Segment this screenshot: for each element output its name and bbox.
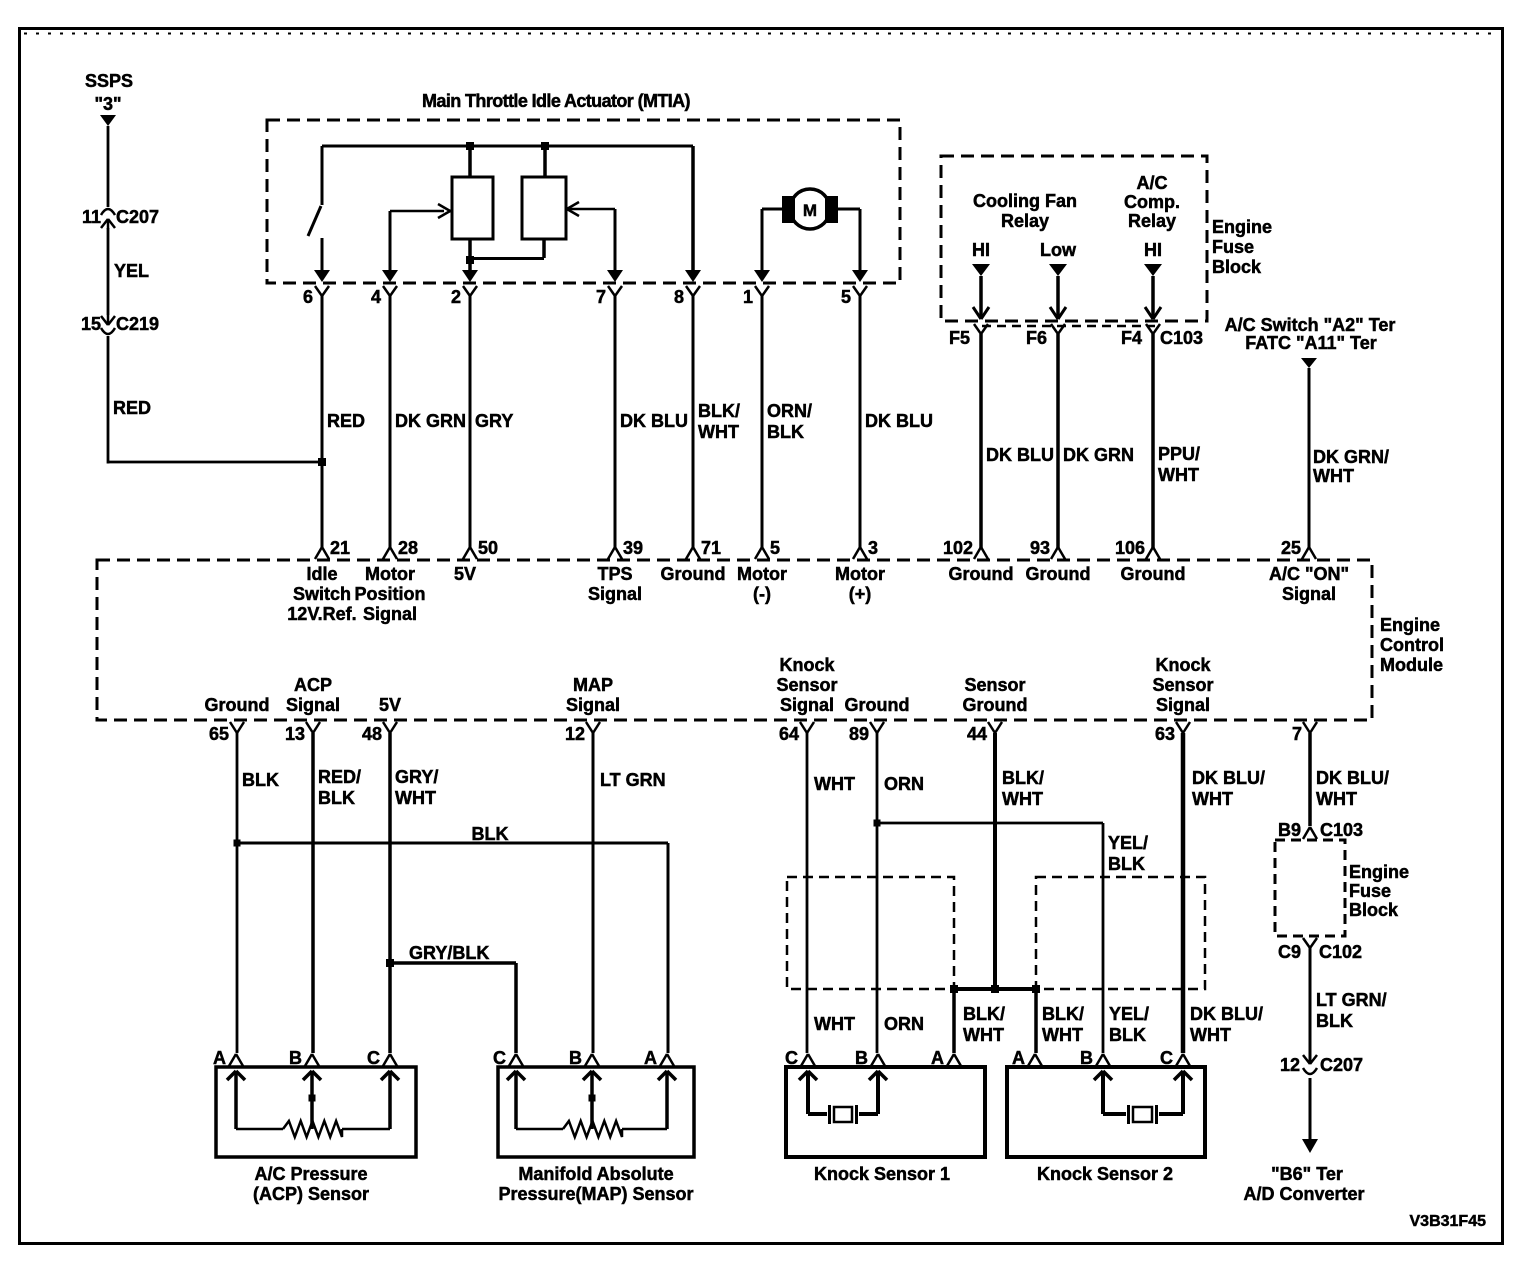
MTIA pin 4 connector	[371, 270, 398, 307]
wire MTIA pin 5 to ECM	[859, 295, 862, 548]
ECM top pin 21 connector	[315, 538, 350, 559]
svg-text:A: A	[644, 1048, 657, 1068]
ECM bottom pin 89 connector	[849, 722, 884, 744]
svg-text:BLK: BLK	[318, 788, 355, 808]
ECM bottom pin 7 connector	[1292, 722, 1317, 744]
svg-text:ORN/: ORN/	[767, 401, 812, 421]
idle switch	[308, 146, 322, 270]
KS1 internal arrow C	[799, 1071, 817, 1114]
MTIA pin 5 connector	[841, 270, 868, 307]
engine fuse block 2 enclosure	[1275, 840, 1345, 936]
wire YEL label	[114, 261, 149, 281]
svg-text:DK GRN: DK GRN	[1063, 445, 1134, 465]
fuse F5 wire	[979, 276, 983, 318]
svg-text:Knock Sensor 1: Knock Sensor 1	[814, 1164, 950, 1184]
junction dot pot2 top	[541, 142, 549, 150]
ECM pin 48 function label	[379, 695, 401, 715]
ECM top pin 28 connector	[383, 538, 418, 559]
shield dashed box KS1	[787, 877, 954, 989]
svg-text:Motor: Motor	[835, 564, 885, 584]
KS1 internal arrow B	[869, 1071, 887, 1114]
svg-text:5: 5	[770, 538, 780, 558]
svg-text:65: 65	[209, 724, 229, 744]
svg-text:Ground: Ground	[845, 695, 910, 715]
ECM top pin 39 connector	[608, 538, 643, 559]
svg-text:GRY/: GRY/	[395, 767, 438, 787]
svg-text:Comp.: Comp.	[1124, 192, 1180, 212]
svg-text:(ACP) Sensor: (ACP) Sensor	[253, 1184, 369, 1204]
KS1 pin A connector	[931, 1048, 961, 1068]
svg-text:YEL/: YEL/	[1108, 833, 1148, 853]
svg-text:WHT: WHT	[1316, 789, 1357, 809]
svg-text:BLK: BLK	[1109, 1025, 1146, 1045]
ECM bottom pin 63 connector	[1155, 722, 1190, 744]
svg-text:21: 21	[330, 538, 350, 558]
potentiometer element 1	[452, 177, 493, 239]
svg-text:Idle: Idle	[306, 564, 337, 584]
svg-text:PPU/: PPU/	[1158, 444, 1200, 464]
KS1 pin C connector	[785, 1048, 815, 1068]
fuse F5 connector	[949, 307, 989, 348]
connector C207 pin 11	[82, 207, 159, 229]
wire 7 DK BLU/WHT down	[1308, 733, 1312, 826]
wire 89 ORN to KS1 B	[876, 733, 879, 1053]
engine fuse block label	[1212, 217, 1272, 277]
relay HI terminal	[972, 240, 990, 276]
pot2 top stem	[543, 146, 547, 177]
wire C207 to AD converter	[1309, 1078, 1312, 1140]
svg-text:DK BLU: DK BLU	[865, 411, 933, 431]
svg-text:Ground: Ground	[963, 695, 1028, 715]
svg-text:BLK: BLK	[472, 824, 509, 844]
svg-text:C: C	[367, 1048, 380, 1068]
svg-text:YEL: YEL	[114, 261, 149, 281]
svg-text:DK BLU: DK BLU	[620, 411, 688, 431]
svg-text:F6: F6	[1026, 328, 1047, 348]
wire MTIA top bus	[322, 145, 693, 148]
svg-text:71: 71	[701, 538, 721, 558]
wire C219 down and right to junction	[108, 336, 322, 464]
svg-text:WHT: WHT	[1002, 789, 1043, 809]
KS1 box	[786, 1067, 985, 1157]
svg-text:M: M	[803, 201, 817, 220]
svg-text:ACP: ACP	[294, 675, 332, 695]
cooling fan relay label	[973, 191, 1077, 231]
wire fuse to ECM pin 106	[1151, 334, 1155, 548]
svg-text:102: 102	[943, 538, 973, 558]
svg-text:FATC "A11" Ter: FATC "A11" Ter	[1245, 333, 1376, 353]
svg-text:WHT: WHT	[395, 788, 436, 808]
svg-text:B: B	[1080, 1048, 1093, 1068]
svg-text:3: 3	[868, 538, 878, 558]
svg-text:12: 12	[1280, 1055, 1300, 1075]
svg-text:5V: 5V	[454, 564, 476, 584]
svg-text:RED: RED	[113, 398, 151, 418]
svg-text:SSPS: SSPS	[85, 71, 133, 91]
svg-text:BLK/: BLK/	[1042, 1004, 1084, 1024]
wire C102 to C207	[1309, 948, 1312, 1053]
wire color label GRY	[475, 411, 513, 431]
pot1 wiper arrow from pin 4	[390, 204, 451, 270]
engine fuse block enclosure	[941, 156, 1207, 321]
KS1 label	[814, 1164, 950, 1184]
svg-text:4: 4	[371, 287, 381, 307]
ECM pin 28 function label	[355, 564, 426, 624]
svg-text:"3": "3"	[94, 94, 121, 114]
svg-text:Module: Module	[1380, 655, 1443, 675]
ECM pin 71 function label	[661, 564, 726, 584]
MTIA pin 8 connector	[674, 270, 701, 307]
wire color label ORN	[884, 774, 924, 794]
svg-text:YEL/: YEL/	[1109, 1004, 1149, 1024]
svg-text:BLK: BLK	[242, 770, 279, 790]
KS2 internal arrow B	[1094, 1071, 1112, 1114]
ECM pin 44 function label	[963, 675, 1028, 715]
svg-text:BLK/: BLK/	[1002, 768, 1044, 788]
ACP internal arrow A	[227, 1071, 245, 1129]
wire MTIA pin 4 to ECM	[389, 295, 392, 548]
svg-text:MAP: MAP	[573, 675, 613, 695]
svg-text:Cooling Fan: Cooling Fan	[973, 191, 1077, 211]
pot1 bottom stem	[468, 239, 472, 270]
svg-text:C207: C207	[116, 207, 159, 227]
wire color label DK BLU	[865, 411, 933, 431]
KS1 piezo element	[808, 1105, 878, 1124]
svg-text:GRY/BLK: GRY/BLK	[409, 943, 489, 963]
junction YEL/BLK branch	[874, 820, 881, 827]
connector C102 pin C9	[1278, 938, 1362, 962]
AD converter arrow	[1302, 1139, 1318, 1153]
MTIA title	[422, 91, 691, 111]
svg-text:Switch: Switch	[293, 584, 351, 604]
svg-text:106: 106	[1115, 538, 1145, 558]
svg-text:Main Throttle Idle Actuator (M: Main Throttle Idle Actuator (MTIA)	[422, 91, 691, 111]
wire color label GRY/WHT	[395, 767, 438, 808]
svg-text:Motor: Motor	[737, 564, 787, 584]
svg-text:89: 89	[849, 724, 869, 744]
svg-text:Position: Position	[355, 584, 426, 604]
ECM bottom pin 13 connector	[285, 722, 320, 744]
shield dashed box KS2	[1036, 877, 1205, 989]
ECM bottom pin 48 connector	[362, 722, 397, 744]
svg-text:B: B	[569, 1048, 582, 1068]
connector C103 dashed line	[982, 326, 1203, 348]
svg-text:Signal: Signal	[566, 695, 620, 715]
svg-text:Manifold Absolute: Manifold Absolute	[518, 1164, 673, 1184]
svg-text:B: B	[289, 1048, 302, 1068]
junction shield left	[950, 985, 958, 993]
wire 12 LT GRN to MAP B	[592, 733, 595, 1053]
MTIA pin 2 connector	[451, 270, 478, 307]
ECM top pin 5 connector	[755, 538, 780, 559]
MAP pin A connector	[644, 1048, 674, 1068]
wire BLK bus to MAP A	[237, 843, 668, 1053]
MAP internal arrow C	[507, 1071, 525, 1129]
svg-text:Sensor: Sensor	[964, 675, 1025, 695]
svg-text:WHT: WHT	[814, 1014, 855, 1034]
MAP internal wiper dot	[589, 1095, 596, 1102]
ECM bottom pin 12 connector	[565, 722, 600, 744]
svg-text:A/C Switch "A2" Ter: A/C Switch "A2" Ter	[1225, 315, 1396, 335]
svg-text:Ground: Ground	[1026, 564, 1091, 584]
svg-text:Ground: Ground	[661, 564, 726, 584]
svg-text:Control: Control	[1380, 635, 1444, 655]
MAP sensor label	[498, 1164, 693, 1204]
fuse F6 connector	[1026, 307, 1066, 348]
junction dot pot1 top	[466, 142, 474, 150]
MTIA pin 1 connector	[743, 270, 770, 307]
ECM top pin 71 connector	[686, 538, 721, 559]
svg-text:DK BLU/: DK BLU/	[1192, 768, 1265, 788]
svg-text:Engine: Engine	[1380, 615, 1440, 635]
wire color label DK BLU/WHT pin7	[1316, 768, 1389, 809]
wire color label BLK	[242, 770, 279, 790]
svg-text:B: B	[855, 1048, 868, 1068]
svg-text:BLK: BLK	[1108, 854, 1145, 874]
svg-text:12V.Ref.: 12V.Ref.	[287, 604, 356, 624]
svg-text:ORN: ORN	[884, 1014, 924, 1034]
svg-text:TPS: TPS	[597, 564, 632, 584]
wire shield drop to KS2 A	[1034, 989, 1038, 1053]
fuse F6 wire	[1056, 276, 1060, 318]
wire color label ORN/BLK	[767, 401, 812, 442]
svg-text:DK BLU: DK BLU	[986, 445, 1054, 465]
junction shield mid	[991, 985, 999, 993]
svg-text:(-): (-)	[753, 584, 771, 604]
ECM pin 50 function label	[454, 564, 476, 584]
ECM pin 25 function label	[1269, 564, 1349, 604]
ECM label	[1380, 615, 1444, 675]
ECM pin 21 function label	[287, 564, 356, 624]
svg-text:Relay: Relay	[1001, 211, 1049, 231]
AC comp relay label	[1124, 173, 1180, 231]
ACP internal arrow B	[303, 1071, 321, 1129]
relay HI terminal 2	[1144, 240, 1162, 276]
ECM bottom pin 64 connector	[779, 722, 814, 744]
svg-text:A: A	[213, 1048, 226, 1068]
wire color label DK GRN	[1063, 445, 1134, 465]
svg-text:A/C: A/C	[1137, 173, 1168, 193]
connector C219 pin 15	[81, 314, 159, 334]
svg-text:Block: Block	[1349, 900, 1399, 920]
svg-text:Pressure(MAP) Sensor: Pressure(MAP) Sensor	[498, 1184, 693, 1204]
svg-text:F4: F4	[1121, 328, 1142, 348]
SSPS terminal arrow	[100, 115, 116, 126]
svg-text:Signal: Signal	[1156, 695, 1210, 715]
svg-text:1: 1	[743, 287, 753, 307]
svg-text:39: 39	[623, 538, 643, 558]
MTIA dashed enclosure	[267, 120, 900, 283]
wire color label DK BLU	[986, 445, 1054, 465]
wire color label LT GRN/BLK	[1316, 990, 1387, 1031]
wire label YEL/BLK row3	[1109, 1004, 1149, 1045]
wire color label RED	[327, 411, 365, 431]
KS2 pin C connector	[1160, 1048, 1190, 1068]
ECM pin 13 function label	[286, 675, 340, 715]
svg-text:HI: HI	[972, 240, 990, 260]
svg-text:C103: C103	[1320, 820, 1363, 840]
wire MTIA pin 2 to ECM	[469, 295, 472, 548]
ECM top pin 50 connector	[463, 538, 498, 559]
wire 63 DK BLU/WHT to KS2 C	[1181, 733, 1186, 1053]
svg-text:C9: C9	[1278, 942, 1301, 962]
svg-text:C: C	[1160, 1048, 1173, 1068]
ECM pin 64 function label	[776, 655, 837, 715]
svg-text:Sensor: Sensor	[776, 675, 837, 695]
wire YEL/BLK branch to KS2 B	[877, 823, 1103, 1053]
MAP internal arrow A	[658, 1071, 676, 1129]
svg-text:50: 50	[478, 538, 498, 558]
svg-text:A: A	[1012, 1048, 1025, 1068]
wire MTIA pin 8 to ECM	[692, 295, 695, 548]
svg-text:6: 6	[303, 287, 313, 307]
svg-text:64: 64	[779, 724, 799, 744]
MAP pin C connector	[493, 1048, 523, 1068]
ECM top pin 3 connector	[853, 538, 878, 559]
pot2 wiper arrow from pin 7	[566, 202, 615, 270]
svg-text:BLK: BLK	[1316, 1011, 1353, 1031]
svg-text:Signal: Signal	[588, 584, 642, 604]
wire 13 RED/BLK to ACP B	[311, 733, 315, 1053]
ACP pin A connector	[213, 1048, 243, 1068]
ECM bottom pin 65 connector	[209, 722, 244, 744]
ACP sensor box	[216, 1067, 416, 1157]
KS2 pin B connector	[1080, 1048, 1110, 1068]
svg-text:ORN: ORN	[884, 774, 924, 794]
AC switch arrow	[1301, 358, 1317, 368]
svg-text:Engine: Engine	[1349, 862, 1409, 882]
MAP resistor	[516, 1121, 667, 1137]
svg-text:F5: F5	[949, 328, 970, 348]
ECM pin 65 function label	[205, 695, 270, 715]
svg-text:V3B31F45: V3B31F45	[1410, 1213, 1487, 1230]
svg-text:WHT: WHT	[1192, 789, 1233, 809]
potentiometer element 2	[522, 177, 566, 239]
svg-text:RED/: RED/	[318, 767, 361, 787]
wire color label DK BLU	[620, 411, 688, 431]
svg-text:7: 7	[1292, 724, 1302, 744]
svg-text:5: 5	[841, 287, 851, 307]
svg-text:BLK/: BLK/	[963, 1004, 1005, 1024]
junction at RED wire	[318, 458, 326, 466]
ECM pin 63 function label	[1152, 655, 1213, 715]
ECM dashed enclosure	[97, 560, 1372, 720]
wire 65 BLK to ACP A	[236, 733, 239, 1053]
ACP resistor	[236, 1121, 390, 1137]
svg-text:C: C	[493, 1048, 506, 1068]
svg-text:12: 12	[565, 724, 585, 744]
svg-text:5V: 5V	[379, 695, 401, 715]
svg-text:Signal: Signal	[286, 695, 340, 715]
KS1 pin B connector	[855, 1048, 885, 1068]
KS2 pin A connector	[1012, 1048, 1042, 1068]
svg-text:C: C	[785, 1048, 798, 1068]
svg-text:8: 8	[674, 287, 684, 307]
MAP pin B connector	[569, 1048, 599, 1068]
svg-text:LT GRN/: LT GRN/	[1316, 990, 1387, 1010]
ACP internal wiper dot	[309, 1095, 316, 1102]
svg-text:Sensor: Sensor	[1152, 675, 1213, 695]
ECM pin 12 function label	[566, 675, 620, 715]
svg-text:WHT: WHT	[698, 422, 739, 442]
svg-text:(+): (+)	[849, 584, 872, 604]
wire color label DK GRN/WHT	[1313, 447, 1389, 486]
svg-text:11: 11	[82, 207, 101, 227]
svg-text:Knock Sensor 2: Knock Sensor 2	[1037, 1164, 1173, 1184]
wire label ORN row3	[884, 1014, 924, 1034]
BLK bus label	[472, 824, 509, 844]
svg-text:48: 48	[362, 724, 382, 744]
pot1 top stem	[468, 146, 472, 177]
ECM pin 93 function label	[1026, 564, 1091, 584]
svg-text:Knock: Knock	[1155, 655, 1211, 675]
svg-text:44: 44	[967, 724, 987, 744]
KS2 box	[1007, 1067, 1205, 1157]
KS2 internal arrow C	[1174, 1071, 1192, 1114]
svg-text:Ground: Ground	[949, 564, 1014, 584]
wire MTIA pin 1 to ECM	[761, 295, 764, 548]
svg-text:Ground: Ground	[1121, 564, 1186, 584]
node AC switch terminal	[1225, 315, 1396, 353]
ACP pin C connector	[367, 1048, 397, 1068]
fuse F4 connector	[1121, 307, 1161, 348]
svg-text:7: 7	[596, 287, 606, 307]
wire MTIA pin 7 to ECM	[614, 295, 617, 548]
wire 48 GRY/WHT to ACP C	[388, 733, 392, 1053]
fuse F4 wire	[1151, 276, 1155, 318]
ECM pin 89 function label	[845, 695, 910, 715]
svg-text:Fuse: Fuse	[1212, 237, 1254, 257]
MTIA pin 6 connector	[303, 270, 330, 307]
svg-text:WHT: WHT	[1190, 1025, 1231, 1045]
svg-text:A: A	[931, 1048, 944, 1068]
svg-text:WHT: WHT	[963, 1025, 1004, 1045]
svg-text:Signal: Signal	[363, 604, 417, 624]
svg-text:C102: C102	[1319, 942, 1362, 962]
svg-text:A/C "ON": A/C "ON"	[1269, 564, 1349, 584]
pot2 bottom link	[470, 239, 544, 259]
ECM pin 106 function label	[1121, 564, 1186, 584]
ECM top pin 102 connector	[943, 538, 988, 559]
ACP internal arrow C	[381, 1071, 399, 1129]
wire 44 BLK/WHT to shield bus	[993, 733, 997, 989]
svg-text:28: 28	[398, 538, 418, 558]
svg-text:RED: RED	[327, 411, 365, 431]
junction shield right	[1032, 985, 1040, 993]
svg-text:Motor: Motor	[365, 564, 415, 584]
svg-text:93: 93	[1030, 538, 1050, 558]
svg-text:GRY: GRY	[475, 411, 513, 431]
svg-text:DK GRN/: DK GRN/	[1313, 447, 1389, 467]
svg-text:Signal: Signal	[780, 695, 834, 715]
KS2 label	[1037, 1164, 1173, 1184]
svg-text:Signal: Signal	[1282, 584, 1336, 604]
wire SSPS to C207	[107, 126, 110, 207]
relay Low terminal	[1040, 240, 1077, 276]
wire shield drop to KS1 A	[952, 989, 956, 1053]
svg-text:C219: C219	[116, 314, 159, 334]
ECM pin 3 function label	[835, 564, 885, 604]
wire label BLK/WHT row3 left	[963, 1004, 1005, 1045]
wire GRY/BLK branch to MAP C	[390, 963, 516, 1053]
svg-text:13: 13	[285, 724, 305, 744]
engine fuse block 2 label	[1349, 862, 1409, 920]
svg-text:15: 15	[81, 314, 101, 334]
wire 64 WHT to KS1 C	[806, 733, 809, 1053]
wire fuse to ECM pin 93	[1056, 334, 1060, 548]
ECM top pin 106 connector	[1115, 538, 1160, 559]
wire color label DK GRN	[395, 411, 466, 431]
